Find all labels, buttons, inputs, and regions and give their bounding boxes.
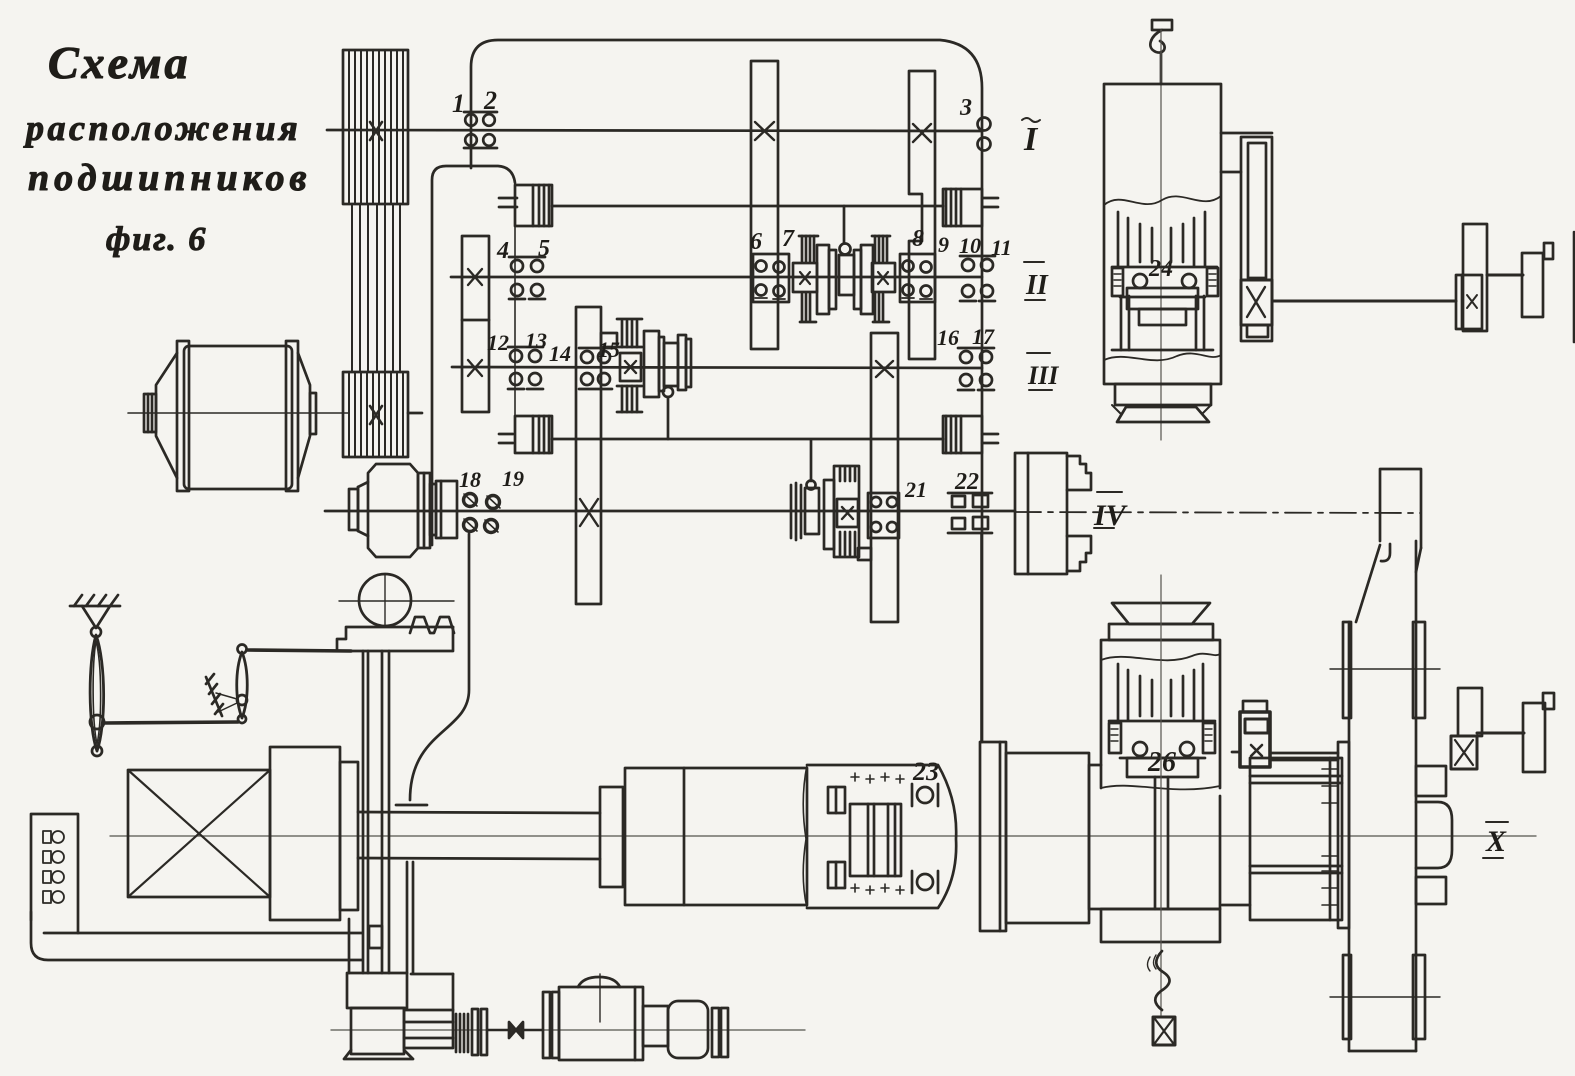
svg-text:I: I xyxy=(1023,121,1039,158)
svg-text:15: 15 xyxy=(598,337,620,362)
svg-text:21: 21 xyxy=(904,477,927,502)
svg-text:8: 8 xyxy=(912,226,924,252)
svg-text:19: 19 xyxy=(502,466,524,491)
svg-text:12: 12 xyxy=(487,330,509,355)
svg-text:подшипников: подшипников xyxy=(28,157,311,199)
svg-text:X: X xyxy=(1485,825,1507,858)
svg-text:17: 17 xyxy=(972,324,995,349)
svg-text:10: 10 xyxy=(959,233,981,258)
svg-text:Схема: Схема xyxy=(48,37,190,88)
svg-text:18: 18 xyxy=(459,467,481,492)
svg-text:III: III xyxy=(1027,361,1059,390)
svg-text:7: 7 xyxy=(782,226,795,252)
svg-text:2: 2 xyxy=(483,86,497,115)
svg-text:13: 13 xyxy=(525,328,547,353)
svg-text:расположения: расположения xyxy=(23,108,301,148)
svg-text:14: 14 xyxy=(549,341,571,366)
svg-text:16: 16 xyxy=(937,325,959,350)
svg-text:3: 3 xyxy=(959,95,972,121)
svg-text:22: 22 xyxy=(954,469,979,495)
svg-text:9: 9 xyxy=(938,232,949,257)
svg-text:5: 5 xyxy=(538,236,550,262)
svg-text:23: 23 xyxy=(912,757,939,786)
svg-text:4: 4 xyxy=(496,238,509,264)
svg-text:11: 11 xyxy=(991,235,1012,260)
svg-text:1: 1 xyxy=(452,89,465,118)
svg-text:6: 6 xyxy=(750,229,762,255)
svg-text:фиг. 6: фиг. 6 xyxy=(106,221,207,258)
svg-text:II: II xyxy=(1025,270,1049,301)
